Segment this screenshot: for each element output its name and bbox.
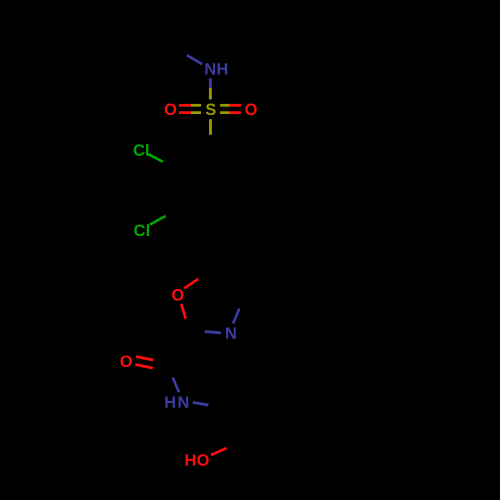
label Cl top xyxy=(134,144,149,156)
label Cl bottom xyxy=(134,224,149,236)
bond N-C2 oxazoline (N half) xyxy=(205,332,221,333)
bond O-C5 oxazoline (O half) xyxy=(184,279,198,288)
double bond C=O amide, upper line, O half xyxy=(136,357,153,360)
double bond S=O right, upper line, S half xyxy=(220,104,230,107)
double bond S=O right, lower line, O half xyxy=(230,111,241,114)
double bond S=O left, lower line, O half xyxy=(179,111,191,114)
double bond C=O amide, lower line, O half xyxy=(135,365,152,369)
bond O-C2 oxazoline (O half) xyxy=(181,304,185,319)
double bond S=O right, upper line, O half xyxy=(230,104,241,107)
label NH sulfonamide xyxy=(205,63,227,74)
label O amide xyxy=(120,355,131,367)
label HN amide xyxy=(165,397,188,408)
double bond S=O left, upper line, O half xyxy=(179,104,191,107)
bond O-CH2 hydroxyl (O half) xyxy=(211,448,227,455)
label O sulfonyl right xyxy=(245,104,256,116)
label N oxazoline xyxy=(226,327,236,338)
label O oxazoline xyxy=(172,289,183,301)
bond S-C aryl (S half) xyxy=(209,119,212,135)
label HO hydroxyl xyxy=(186,454,209,466)
bond N-S (S half) xyxy=(209,88,212,99)
bond Cl-C bottom (Cl half) xyxy=(150,216,166,225)
label O sulfonyl left xyxy=(165,104,176,116)
bond N-S (N half) xyxy=(209,78,212,88)
bond Cl-C top (Cl half) xyxy=(148,154,163,162)
bond N-CH amide (N half) xyxy=(193,402,209,405)
label S sulfonyl xyxy=(206,104,216,116)
double bond S=O left, upper line, S half xyxy=(191,104,201,107)
double bond S=O left, lower line, S half xyxy=(191,111,201,114)
bond N-C4 oxazoline (N half) xyxy=(233,309,239,324)
bond CH3-N (N half) xyxy=(187,55,202,64)
bond C-N amide (N half) xyxy=(173,378,179,393)
double bond S=O right, lower line, S half xyxy=(220,111,230,114)
